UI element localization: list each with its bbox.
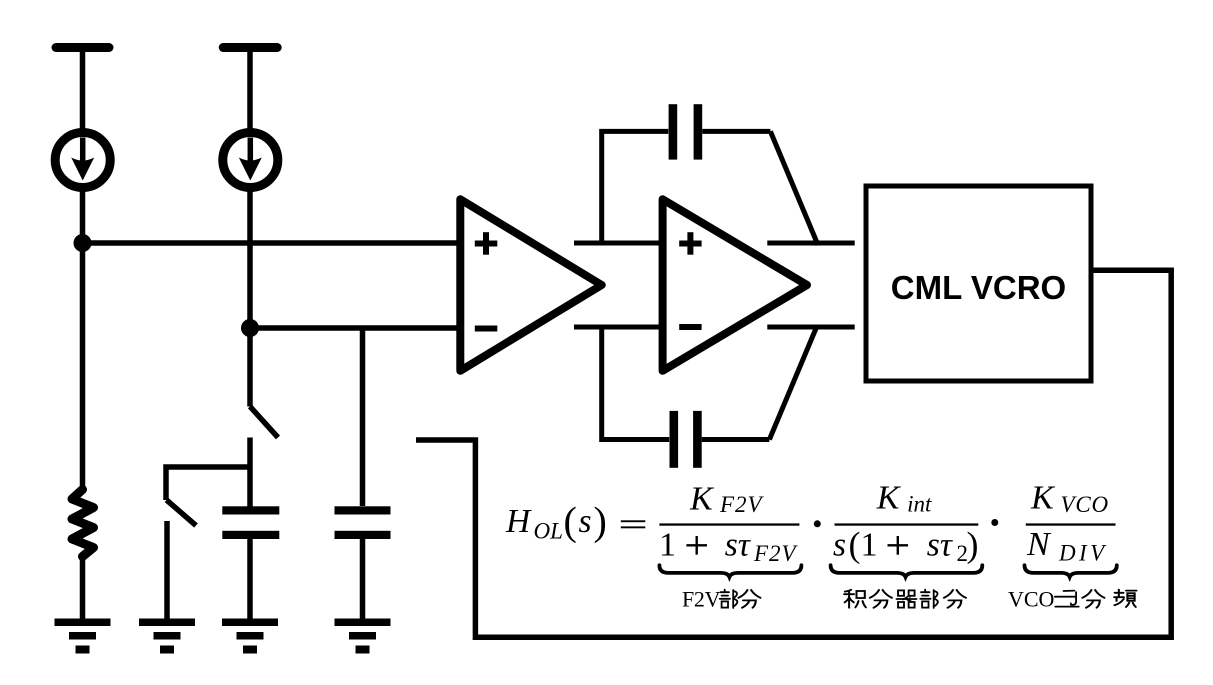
svg-text:1: 1 [861, 527, 878, 564]
svg-text:VCO: VCO [1008, 587, 1054, 612]
svg-text:F2V: F2V [753, 541, 799, 566]
svg-text:H: H [505, 503, 532, 540]
svg-text:sτ: sτ [927, 527, 953, 564]
svg-text:s: s [833, 527, 846, 564]
svg-text:CML VCRO: CML VCRO [891, 269, 1066, 306]
svg-text:VCO: VCO [1061, 492, 1109, 517]
svg-text:1: 1 [659, 527, 676, 564]
svg-text:F2V: F2V [719, 492, 765, 517]
svg-text:K: K [876, 479, 902, 516]
svg-text:sτ: sτ [725, 527, 751, 564]
svg-text:F2V: F2V [682, 587, 721, 612]
svg-text:K: K [1030, 479, 1056, 516]
svg-text:s: s [579, 503, 592, 540]
svg-text:K: K [689, 481, 715, 518]
svg-text:(: ( [564, 499, 577, 544]
svg-text:): ) [594, 499, 607, 544]
svg-text:): ) [967, 525, 979, 565]
svg-text:OL: OL [534, 519, 563, 544]
svg-text:N: N [1026, 526, 1052, 563]
svg-text:(: ( [849, 525, 861, 565]
svg-text:int: int [907, 492, 932, 517]
svg-text:DIV: DIV [1058, 541, 1108, 566]
